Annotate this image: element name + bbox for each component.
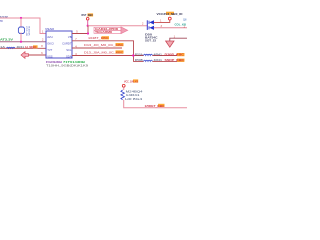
svg-text:B104K: B104K <box>27 26 29 36</box>
svg-text:8: 8 <box>41 45 43 48</box>
svg-text:VSS: VSS <box>47 54 53 58</box>
svg-text:1A_MKBC: 1A_MKBC <box>25 45 37 49</box>
svg-text:AT3.3V: AT3.3V <box>0 38 13 42</box>
svg-text:SSDP_KBC: SSDP_KBC <box>165 58 185 62</box>
svg-text:4R41: 4R41 <box>17 46 25 49</box>
svg-text:2: 2 <box>142 23 144 26</box>
svg-text:T10HH_9GB(DK)K1K9: T10HH_9GB(DK)K1K9 <box>46 63 89 67</box>
svg-text:5: 5 <box>76 30 78 33</box>
svg-text:VCC3V3_NB0_ID: VCC3V3_NB0_ID <box>157 12 183 16</box>
svg-text:5B: 5B <box>0 21 3 23</box>
svg-text:H0 8G4: H0 8G4 <box>125 97 143 101</box>
svg-text:1048T_KBC: 1048T_KBC <box>88 36 109 40</box>
svg-text:CURDT: CURDT <box>62 42 72 46</box>
svg-text:AVH: AVH <box>47 35 52 39</box>
svg-text:SOT_23: SOT_23 <box>145 38 157 42</box>
svg-text:VCC_1V8_K3: VCC_1V8_K3 <box>124 79 138 83</box>
svg-text:4R41: 4R41 <box>154 59 163 62</box>
svg-text:COL_KB: COL_KB <box>175 22 187 26</box>
svg-text:2: 2 <box>42 39 44 42</box>
svg-text:1A: 1A <box>0 46 6 49</box>
svg-text:R50B: R50B <box>135 59 144 62</box>
svg-text:1/5DET_KBC: 1/5DET_KBC <box>145 104 165 108</box>
svg-text:D30P_KBC: D30P_KBC <box>165 53 185 57</box>
svg-text:SCL: SCL <box>66 48 72 52</box>
svg-text:Q8: Q8 <box>183 18 187 21</box>
svg-text:6: 6 <box>41 52 43 55</box>
svg-text:RST_KBC: RST_KBC <box>82 13 94 17</box>
svg-text:M24BQ4: M24BQ4 <box>126 90 144 94</box>
svg-text:TEGARM8: TEGARM8 <box>95 31 113 34</box>
svg-text:D13_J0A_M0_0C_KBC: D13_J0A_M0_0C_KBC <box>84 50 124 54</box>
svg-text:C50 4R: C50 4R <box>25 26 27 36</box>
svg-text:4R41: 4R41 <box>154 53 163 56</box>
svg-text:D13_J0I_M0_0C_KBC: D13_J0I_M0_0C_KBC <box>84 43 124 47</box>
svg-text:VB: VB <box>68 35 72 39</box>
svg-text:SDA: SDA <box>66 54 72 58</box>
svg-text:14R41: 14R41 <box>126 93 141 97</box>
svg-text:TVT: TVT <box>47 48 52 52</box>
svg-text:GKCI: GKCI <box>47 42 54 46</box>
svg-text:R50A: R50A <box>135 53 144 56</box>
svg-text:1: 1 <box>42 30 44 33</box>
